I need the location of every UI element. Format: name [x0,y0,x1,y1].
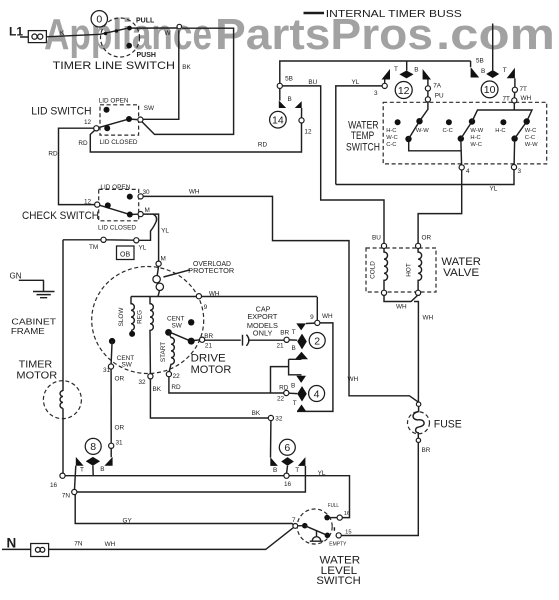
svg-text:SWITCH: SWITCH [316,575,360,587]
svg-text:WH: WH [348,376,359,383]
svg-text:WH: WH [521,95,532,102]
svg-text:RD: RD [171,384,181,391]
svg-text:W-W: W-W [470,128,483,134]
svg-text:7T: 7T [520,86,528,93]
svg-text:0: 0 [96,14,102,26]
svg-text:REG: REG [137,310,144,324]
svg-text:W-W: W-W [416,128,429,134]
svg-text:WH: WH [396,304,407,311]
svg-text:B: B [100,466,104,473]
svg-text:21: 21 [277,342,285,349]
svg-text:4: 4 [466,168,470,175]
svg-text:B: B [292,345,296,352]
svg-text:ONLY: ONLY [253,330,273,337]
svg-text:BK: BK [153,386,162,393]
svg-text:C-C: C-C [443,128,453,134]
svg-text:YL: YL [139,245,147,252]
svg-text:YL: YL [352,79,360,86]
svg-text:EXPORT: EXPORT [247,314,278,321]
svg-text:LID OPEN: LID OPEN [100,184,130,191]
svg-text:7N: 7N [62,492,71,499]
svg-text:HOT: HOT [406,263,413,277]
svg-text:SW: SW [172,322,183,329]
svg-text:BU: BU [308,79,317,86]
svg-text:WH: WH [209,290,220,297]
svg-text:BR: BR [422,447,431,454]
svg-text:COLD: COLD [370,261,377,279]
svg-text:T: T [80,466,84,473]
svg-text:T: T [394,66,398,73]
svg-text:LID CLOSED: LID CLOSED [98,224,136,231]
svg-text:B: B [291,382,295,389]
svg-text:9: 9 [204,304,208,311]
svg-text:12: 12 [398,85,410,97]
svg-text:OR: OR [115,424,125,431]
svg-text:2: 2 [314,335,320,347]
svg-text:7T: 7T [503,95,511,102]
svg-text:L1: L1 [9,24,23,38]
svg-text:9: 9 [310,314,314,321]
svg-text:15: 15 [345,530,351,536]
svg-text:H-C: H-C [470,135,480,141]
svg-text:PUSH: PUSH [137,52,156,59]
svg-text:16: 16 [344,511,350,517]
svg-text:YL: YL [318,470,326,477]
svg-text:32: 32 [139,379,147,386]
svg-text:YL: YL [490,186,498,193]
svg-text:5B: 5B [285,75,293,82]
svg-text:B: B [414,67,418,74]
svg-text:T: T [292,329,296,336]
svg-text:PULL: PULL [136,18,155,25]
svg-text:K: K [60,30,65,37]
svg-text:W-C: W-C [386,135,397,141]
svg-text:BR: BR [204,333,213,340]
svg-text:T: T [503,67,507,74]
svg-text:3: 3 [518,168,522,175]
svg-text:OR: OR [115,375,125,382]
svg-text:WH: WH [322,313,333,320]
svg-text:SLOW: SLOW [118,307,125,327]
svg-text:31: 31 [103,367,111,374]
svg-text:7N: 7N [74,540,83,547]
svg-text:FRAME: FRAME [11,327,45,336]
svg-text:OR: OR [422,234,432,241]
svg-text:12: 12 [304,129,312,136]
svg-text:5B: 5B [476,58,484,65]
svg-text:WH: WH [423,315,434,322]
svg-text:OVERLOAD: OVERLOAD [193,261,231,268]
svg-text:W: W [165,30,172,37]
svg-text:BK: BK [252,410,261,417]
svg-text:WATER: WATER [441,256,481,268]
svg-text:EMPTY: EMPTY [329,542,346,548]
svg-text:TM: TM [89,244,98,251]
svg-text:CABINET: CABINET [11,317,56,326]
svg-text:32: 32 [275,415,283,422]
svg-text:PROTECTOR: PROTECTOR [188,268,234,275]
svg-text:BU: BU [372,234,381,241]
svg-text:W-C: W-C [470,142,481,148]
svg-text:OB: OB [120,252,130,259]
svg-text:MOTOR: MOTOR [16,370,57,381]
svg-text:14: 14 [272,115,284,127]
svg-text:22: 22 [173,373,181,380]
svg-text:12: 12 [84,198,92,205]
svg-text:GN: GN [10,272,22,281]
svg-text:WH: WH [105,541,116,548]
svg-text:H-C: H-C [495,128,505,134]
svg-text:16: 16 [50,482,58,489]
svg-text:BK: BK [182,64,191,71]
svg-text:PU: PU [435,93,444,100]
svg-text:RD: RD [78,140,88,147]
svg-text:SWITCH: SWITCH [346,141,380,153]
svg-text:BR: BR [280,330,289,337]
svg-text:DRIVE: DRIVE [191,353,227,365]
svg-text:W-W: W-W [525,142,538,148]
svg-text:31: 31 [116,439,124,446]
svg-text:TIMER: TIMER [19,360,53,371]
svg-text:MOTOR: MOTOR [191,364,232,376]
svg-text:6: 6 [284,442,290,454]
svg-text:SW: SW [144,105,155,112]
svg-text:FUSE: FUSE [434,418,462,430]
svg-text:LID OPEN: LID OPEN [99,98,129,105]
svg-text:C-C: C-C [525,135,535,141]
svg-text:CHECK SWITCH: CHECK SWITCH [22,210,99,222]
svg-text:LID CLOSED: LID CLOSED [100,139,138,146]
svg-text:21: 21 [205,343,213,350]
svg-text:YL: YL [161,228,169,235]
svg-text:W-C: W-C [525,128,536,134]
svg-text:RD: RD [48,151,58,158]
svg-text:10: 10 [484,84,496,96]
svg-text:RD: RD [279,384,289,391]
svg-text:N: N [7,536,17,551]
svg-text:8: 8 [90,441,96,453]
svg-text:3: 3 [374,90,378,97]
svg-text:VALVE: VALVE [443,267,479,279]
svg-text:30: 30 [143,189,151,196]
svg-text:SW: SW [122,361,133,368]
svg-text:M: M [161,256,166,263]
svg-text:22: 22 [277,396,285,403]
svg-text:B: B [481,68,485,75]
svg-text:FULL: FULL [328,503,339,509]
svg-text:4: 4 [314,388,320,400]
svg-text:M: M [145,207,150,214]
svg-text:12: 12 [84,119,92,126]
svg-text:START: START [160,342,167,362]
svg-text:CAP: CAP [256,306,271,313]
svg-text:MODELS: MODELS [247,323,278,330]
svg-text:GY: GY [123,517,133,524]
svg-text:16: 16 [284,481,292,488]
svg-text:B: B [273,467,277,474]
svg-text:T: T [295,467,299,474]
svg-text:INTERNAL TIMER BUSS: INTERNAL TIMER BUSS [326,9,462,20]
svg-text:T: T [293,400,297,407]
svg-text:H-C: H-C [386,128,396,134]
svg-text:C-C: C-C [386,142,396,148]
svg-text:B: B [288,96,292,103]
svg-text:RD: RD [258,142,268,149]
svg-text:7: 7 [292,517,296,524]
svg-text:TIMER LINE SWITCH: TIMER LINE SWITCH [53,60,175,72]
svg-text:7A: 7A [433,83,442,90]
svg-text:LID SWITCH: LID SWITCH [31,105,91,117]
svg-text:WH: WH [189,188,200,195]
